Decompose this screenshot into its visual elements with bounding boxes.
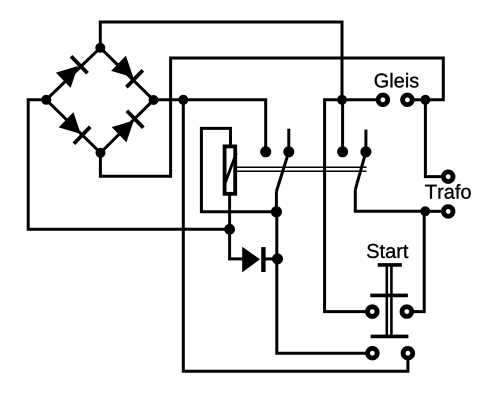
wire: J4 down and right to diode D5 anode	[230, 229, 243, 259]
wire: J7 to Trafo lower terminal	[425, 210, 441, 213]
terminal Trafo upper	[443, 172, 453, 182]
node J1 at Gleis wire x=342	[337, 95, 347, 105]
terminal Gleis right	[403, 95, 413, 105]
node: bridge top	[95, 43, 105, 53]
linkage (actuating line from coil to contacts)	[237, 167, 367, 171]
diode D3 bottom-left of bridge	[58, 111, 90, 143]
contact S1 arm	[276, 129, 288, 212]
wire: S2 arm corner right to J7	[355, 210, 425, 211]
terminal Start bottom-left	[368, 348, 378, 358]
wire: J1 left stub down to Start left terminal	[325, 100, 366, 312]
diode D2 top-right of bridge	[110, 55, 142, 87]
wire: bridge left node left and down to relay coil junction	[28, 100, 229, 230]
node J7 Trafo lower junction	[420, 206, 430, 216]
wire: bridge bottom node loop to top-right corner (443,58) down to Gleis line	[100, 58, 443, 176]
node J2 at Gleis wire x=425	[420, 95, 430, 105]
contact S2 fixed dot	[337, 146, 348, 157]
wire: J3 right then down to contact S1 left	[183, 100, 265, 148]
label Start	[367, 244, 408, 258]
wire: coil bottom stub down to J4	[228, 196, 231, 230]
wire: J6 down through J5 to bottom, right to Start lower-left terminal	[277, 212, 366, 353]
node J3 right of bridge	[178, 95, 188, 105]
node: bridge bottom	[96, 148, 106, 158]
wire: Gleis right terminal to J2	[413, 98, 426, 101]
wire: J3 down to bottom rail, right, up to Start lower-right terminal	[183, 100, 408, 371]
label Trafo	[425, 184, 470, 199]
push button Start: top bar	[378, 263, 402, 267]
diode D5	[242, 247, 265, 273]
contact S2 arm dot	[360, 146, 371, 157]
node J5 diode cathode junction	[272, 253, 283, 264]
push button Start: middle bar	[370, 294, 408, 298]
contact S1 fixed dot	[260, 146, 271, 157]
push button Start: bottom bar	[371, 335, 409, 339]
push button Start: plunger double line	[387, 265, 392, 336]
terminal Start mid-right	[402, 307, 412, 317]
terminal Gleis left	[378, 95, 388, 105]
relay coil K1	[225, 146, 237, 193]
terminal Start bottom-right	[403, 348, 413, 358]
terminal Trafo lower	[443, 207, 453, 217]
diode D1 top-left of bridge	[55, 56, 87, 88]
wire: bridge right node to junction J3	[154, 98, 184, 101]
terminal Start mid-left	[368, 307, 378, 317]
label Gleis	[375, 73, 419, 88]
wire: D5 cathode to J5	[266, 257, 278, 260]
wire top: bridge top node up and right to x=342, down to Gleis junction	[100, 22, 342, 100]
node: bridge left	[41, 95, 51, 105]
node J6 pivot of S1	[271, 206, 282, 217]
wire: J1 down to contact S2 left	[341, 100, 344, 148]
wire: relay loop from J6 left and up to coil top	[201, 128, 276, 211]
wire: J2 down to Trafo upper terminal	[425, 100, 441, 177]
diode D4 bottom-right of bridge	[111, 111, 143, 143]
bridge rectifier diamond	[46, 48, 153, 153]
wire: J7 down, left to Start right terminal	[414, 211, 425, 311]
node J4 coil bottom junction	[224, 224, 235, 235]
wire: J1 to Gleis left terminal	[342, 98, 377, 101]
contact S1 arm dot	[283, 146, 294, 157]
contact S2 arm	[355, 130, 366, 212]
node: bridge right	[149, 95, 159, 105]
